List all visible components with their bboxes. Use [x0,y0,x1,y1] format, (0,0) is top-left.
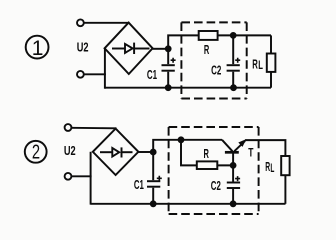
wire RL bottom (circuit 2) [284,175,286,204]
svg-text:C1: C1 [134,177,144,192]
resistor RL (circuit 2) [281,156,289,175]
emitter wire to RL (circuit 2) [245,140,285,156]
circled number 1 [26,36,49,60]
junction node C1 bottom (circuit 2) [150,201,156,207]
svg-text:R: R [204,42,210,57]
bridge rectifier diamond (circuit 1) [105,23,153,74]
wire bridge output to node (circuit 1) [153,48,169,50]
wire bridge left vertex down (circuit 1) [104,48,106,88]
terminal top (circuit 2) [65,124,72,131]
dashed filter box (circuit 1) [181,22,246,98]
wire bottom terminal (circuit 2) [71,175,91,177]
svg-text:U2: U2 [64,143,76,158]
wire bridge left vertex down (circuit 2) [90,152,92,205]
svg-text:2: 2 [32,141,40,164]
junction node C2 bottom (circuit 2) [230,201,236,207]
junction node C1 bottom (circuit 1) [165,85,171,91]
junction node C2 top (circuit 1) [230,33,236,39]
wire up to top rail and across to transistor (circuit 2) [153,140,222,152]
resistor RL (circuit 1) [267,54,276,72]
junction node R branch (circuit 2) [178,137,184,143]
dashed regulator box (circuit 2) [169,127,259,214]
svg-text:1: 1 [32,37,44,60]
terminal bottom (circuit 1) [77,71,84,78]
svg-text:L: L [258,58,263,72]
diode inside bridge (circuit 1) [112,43,150,54]
capacitor C1 (circuit 1) [162,49,176,88]
junction node C1 top (circuit 2) [150,149,156,155]
svg-text:U2: U2 [77,39,89,54]
svg-text:T: T [248,146,254,160]
capacitor C1 (circuit 2) [147,152,162,204]
diode inside bridge (circuit 2) [100,147,133,157]
bridge rectifier diamond (circuit 2) [93,129,139,175]
wire down to RL (circuit 1) [270,35,272,53]
svg-text:C1: C1 [147,67,157,82]
transistor T (circuit 2) [222,140,245,166]
terminal bottom (circuit 2) [65,173,72,180]
wire R to base node (circuit 2) [217,164,233,166]
wire top terminal to bridge (circuit 1) [84,22,129,24]
svg-text:C2: C2 [211,178,221,193]
svg-text:L: L [270,161,274,175]
wire top terminal to bridge (circuit 2) [71,127,116,130]
svg-text:C2: C2 [211,63,221,78]
terminal top (circuit 1) [77,19,84,26]
capacitor C2 (circuit 1) [227,35,241,87]
wire RL bottom (circuit 1) [270,72,272,88]
junction node C2 bottom (circuit 1) [231,85,237,91]
wire bottom terminal (circuit 1) [84,73,106,75]
bottom rail (circuit 2) [91,203,286,205]
svg-text:R: R [204,146,210,161]
circled number 2 [25,141,47,164]
wire up to top rail (circuit 1) [168,35,199,48]
bottom rail (circuit 1) [105,87,271,89]
wire bridge output to node (circuit 2) [138,151,153,153]
junction node C1 top (circuit 1) [165,46,171,52]
resistor R (circuit 2) [197,161,218,169]
junction node base (circuit 2) [230,163,236,169]
wire down to R (circuit 2) [181,140,197,166]
resistor R (circuit 1) [199,31,218,40]
capacitor C2 (circuit 2) [227,165,240,203]
wire R to RL (circuit 1) [218,34,271,36]
